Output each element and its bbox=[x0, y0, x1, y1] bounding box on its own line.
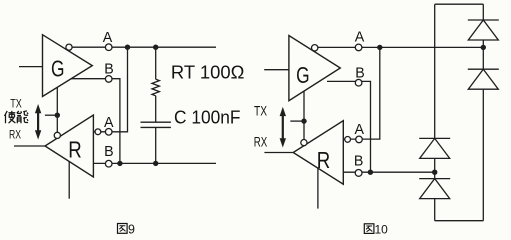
diode D3 bbox=[419, 138, 450, 158]
TX/RX direction arrow fig9 bbox=[35, 104, 41, 140]
svg-text:G: G bbox=[51, 55, 65, 81]
wire A output top rail bbox=[72, 46, 216, 48]
glyph 能 bbox=[17, 111, 28, 123]
wire B output of G1 down to R1 B bbox=[71, 79, 120, 164]
bubble R1 enable bbox=[54, 132, 60, 138]
junction dot enable bbox=[55, 113, 60, 118]
bubble R2 pin A bbox=[345, 137, 351, 143]
wire B output of G2 down bbox=[327, 81, 371, 172]
wire R1 A input up to A rail bbox=[93, 47, 127, 132]
terminal A of R1 bbox=[105, 129, 112, 136]
bubble G1 output A bbox=[66, 44, 72, 50]
wire enable stub bbox=[45, 114, 57, 116]
bubble R2 enable bbox=[301, 140, 307, 146]
diode D4 bbox=[419, 179, 450, 199]
diode D2 bbox=[468, 69, 499, 89]
junction dot A rail / R2.A bbox=[377, 45, 382, 50]
terminal B of G1 bbox=[105, 76, 112, 83]
svg-text:RT 100Ω: RT 100Ω bbox=[171, 63, 245, 83]
junction dot B rail / diode chain bbox=[432, 170, 437, 175]
receiver R2 triangle bbox=[293, 121, 343, 185]
driver G1 triangle bbox=[43, 35, 93, 97]
terminal A of R2 bbox=[356, 136, 363, 143]
svg-text:B: B bbox=[355, 66, 365, 82]
bubble R1 pin A bbox=[95, 129, 101, 135]
wire right chain middle bbox=[482, 40, 484, 69]
svg-text:RX: RX bbox=[9, 128, 21, 142]
svg-text:A: A bbox=[103, 30, 113, 46]
driver G2 triangle bbox=[289, 36, 340, 101]
svg-text:9: 9 bbox=[128, 223, 135, 237]
wire G1 input bbox=[19, 66, 43, 68]
junction dot A rail / diode chain bbox=[481, 45, 486, 50]
wire right chain bottom bbox=[482, 89, 484, 221]
svg-text:B: B bbox=[354, 153, 364, 169]
svg-text:TX: TX bbox=[10, 96, 22, 110]
wire R2 bottom pin bbox=[317, 168, 319, 209]
junction dot A rail / RT bbox=[153, 45, 158, 50]
caption glyph 图 of fig9 bbox=[118, 224, 128, 234]
svg-text:A: A bbox=[355, 122, 365, 138]
wire inner chain upper bbox=[434, 4, 436, 138]
junction dot A rail / R1.A bbox=[125, 45, 130, 50]
junction dot B rail / C bbox=[153, 161, 158, 166]
capacitor C plates bbox=[141, 122, 171, 127]
wire G2 input bbox=[264, 69, 289, 71]
wire R1 bottom pin bbox=[68, 162, 70, 199]
wire inner chain middle bbox=[434, 158, 436, 178]
svg-text:G: G bbox=[296, 62, 310, 88]
junction dot B rail / G1.B bbox=[117, 161, 122, 166]
capacitor C bottom lead bbox=[155, 127, 157, 163]
svg-text:B: B bbox=[104, 62, 114, 78]
bubble G2 output A bbox=[312, 45, 318, 51]
diode D1 bbox=[468, 20, 499, 40]
svg-text:A: A bbox=[355, 30, 365, 46]
wire inner chain lower bbox=[434, 199, 436, 221]
terminal A of G2 bbox=[355, 44, 362, 51]
wire R2 B input rail bbox=[343, 171, 434, 173]
terminal B of G2 bbox=[355, 79, 362, 86]
svg-text:R: R bbox=[68, 137, 82, 163]
receiver R1 triangle bbox=[45, 115, 93, 177]
svg-text:RX: RX bbox=[254, 135, 268, 150]
svg-text:R: R bbox=[317, 147, 331, 173]
svg-text:B: B bbox=[104, 144, 114, 160]
wire right chain top bbox=[482, 4, 484, 20]
junction dot enable fig10 bbox=[301, 118, 306, 123]
TX/RX direction arrow fig10 bbox=[280, 107, 286, 148]
label 使能 (hand-drawn CJK strokes) bbox=[5, 111, 29, 123]
wire enable stub fig10 bbox=[290, 120, 304, 122]
wire R2 output bbox=[264, 152, 293, 154]
glyph 使 bbox=[5, 111, 16, 123]
wire R2 A input up to A rail bbox=[343, 47, 380, 139]
svg-text:TX: TX bbox=[254, 103, 267, 118]
terminal B of R2 bbox=[355, 170, 362, 177]
svg-text:10: 10 bbox=[375, 223, 389, 237]
wire enable vertical G1-to-R1 bbox=[56, 87, 58, 132]
resistor RT zigzag bbox=[152, 79, 159, 96]
resistor RT leads bbox=[155, 47, 157, 122]
junction dot B rail / G2.B bbox=[368, 170, 373, 175]
svg-text:A: A bbox=[104, 115, 114, 131]
wire R1 output bbox=[14, 145, 45, 147]
svg-text:C 100nF: C 100nF bbox=[174, 108, 241, 128]
wire enable vertical G2-to-R2 bbox=[303, 91, 305, 139]
diode network top rail bbox=[435, 3, 484, 5]
terminal A of G1 bbox=[105, 44, 112, 51]
caption glyph 图 of fig10 bbox=[364, 224, 374, 234]
terminal B of R1 bbox=[105, 160, 112, 167]
wire R1 B input bottom rail bbox=[93, 162, 216, 164]
diode network bottom rail bbox=[435, 220, 484, 222]
wire A output rail fig10 bbox=[318, 46, 483, 48]
